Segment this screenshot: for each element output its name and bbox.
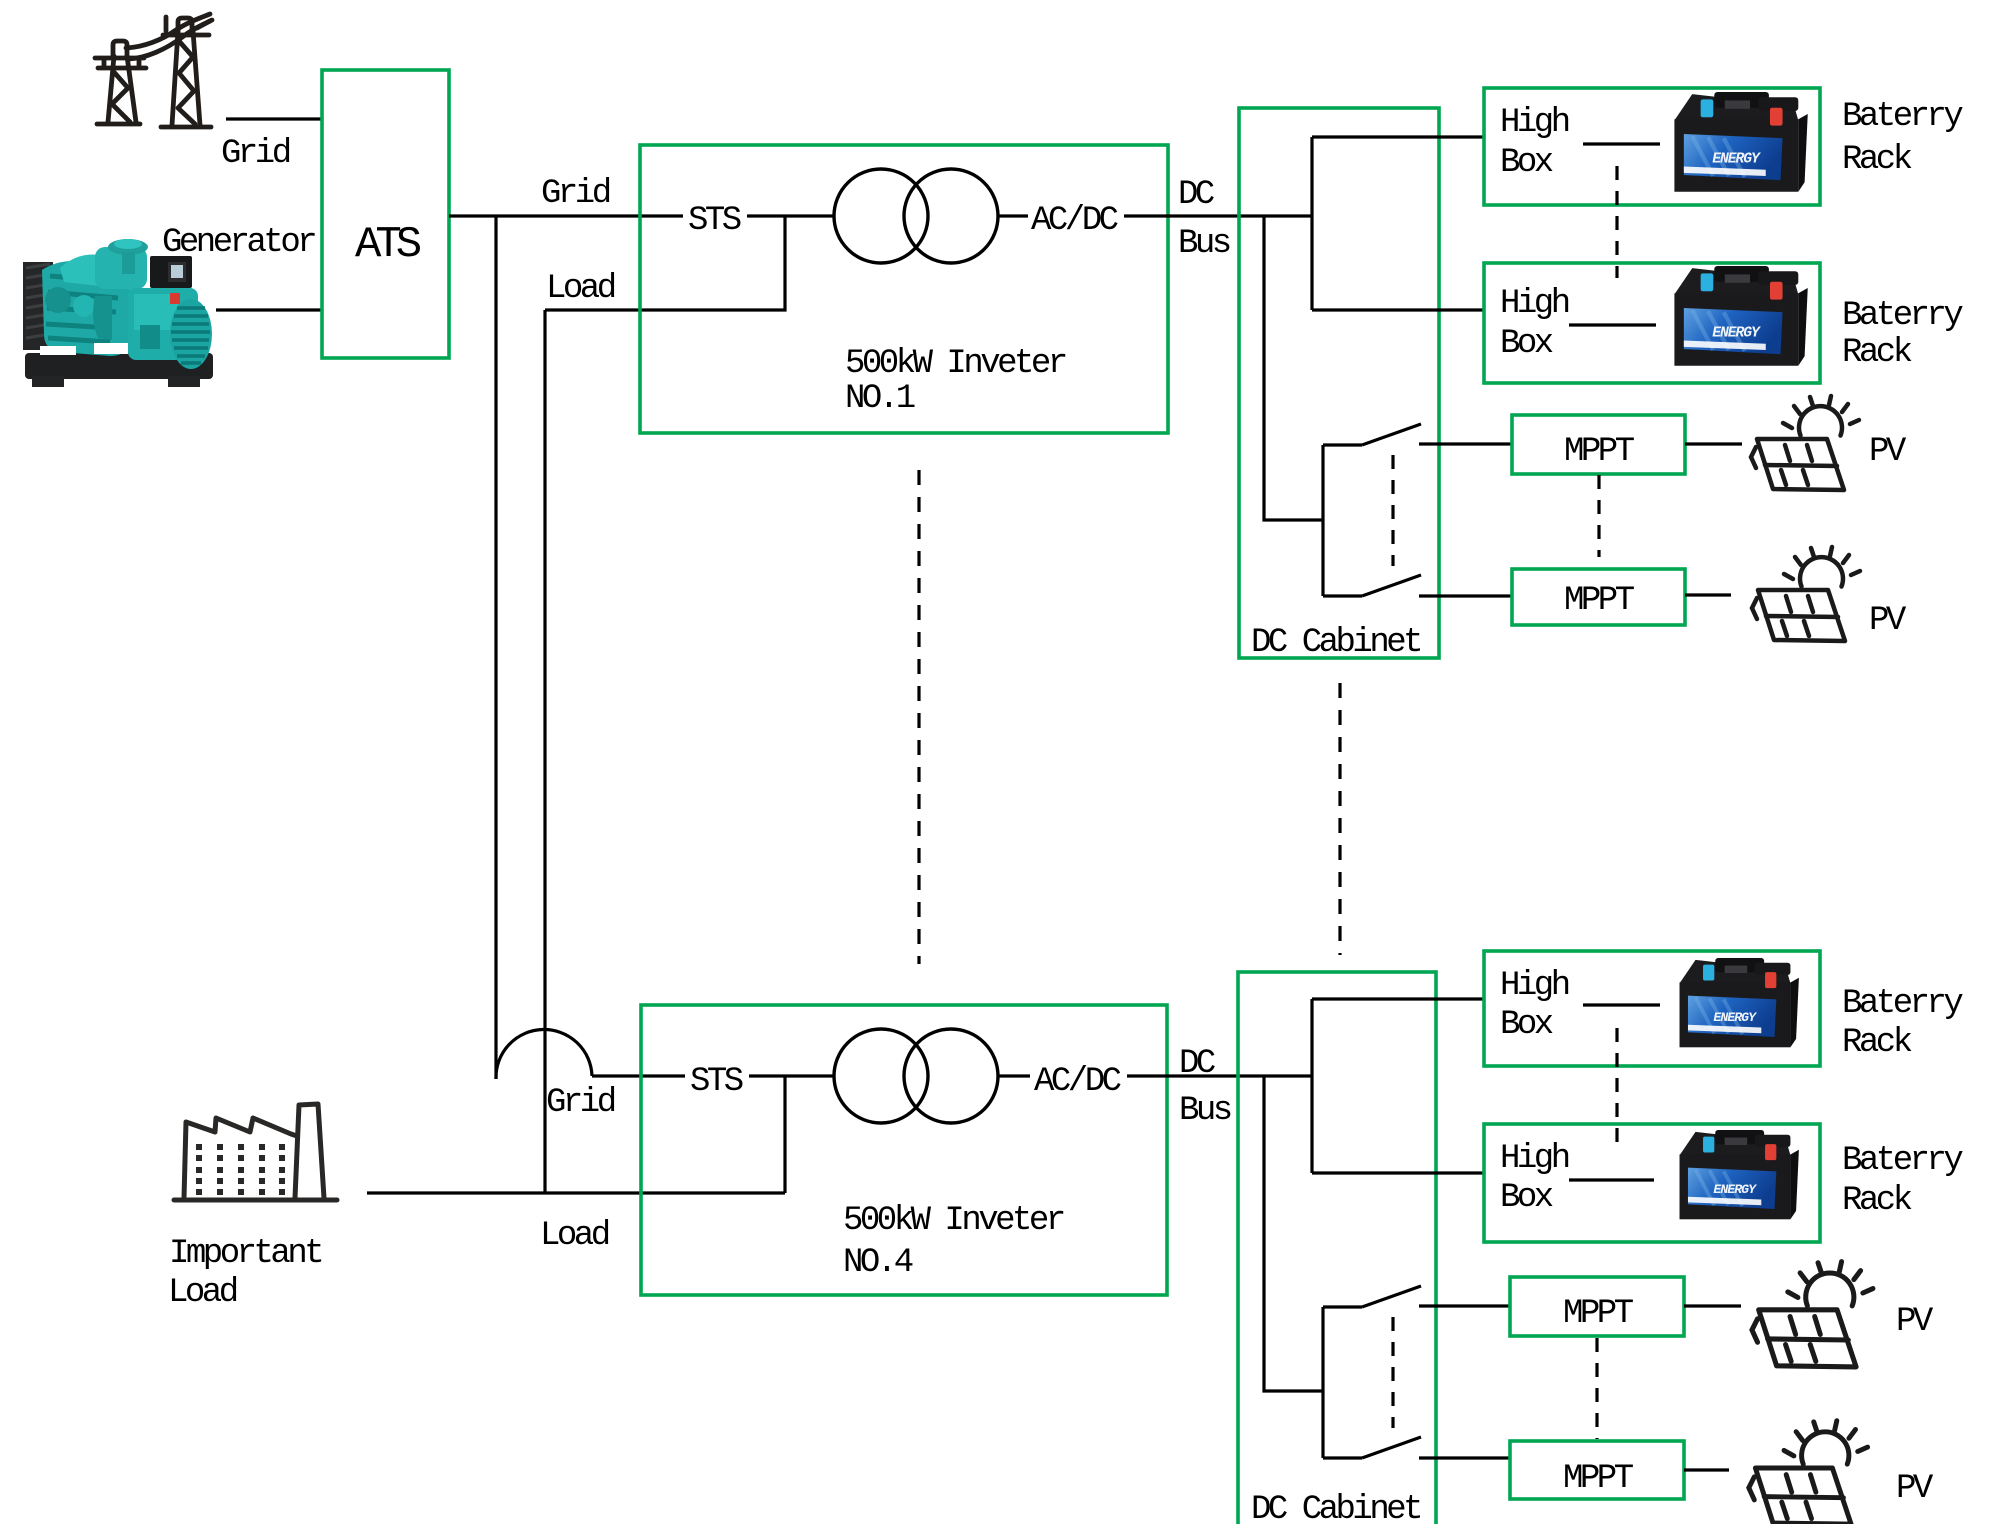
wire: tower to ATS	[226, 117, 322, 120]
svg-text:MPPT: MPPT	[1563, 1295, 1634, 1333]
svg-text:Load: Load	[546, 270, 615, 308]
MPPT 4 box	[1510, 1441, 1684, 1499]
svg-text:AC/DC: AC/DC	[1031, 202, 1118, 240]
svg-text:Grid: Grid	[541, 175, 610, 213]
svg-text:High: High	[1500, 1140, 1569, 1178]
battery rack 1 image	[1674, 92, 1807, 192]
dashed link between switches S2	[1391, 1317, 1394, 1428]
svg-text:PV: PV	[1896, 1303, 1934, 1341]
PV array icon 4	[1749, 1421, 1868, 1524]
svg-text:Rack: Rack	[1842, 141, 1912, 179]
inverter U4 box (500kW Inveter NO.4)	[641, 1005, 1167, 1295]
DC Cabinet 2 box	[1238, 972, 1436, 1524]
PV array icon 1	[1751, 396, 1859, 490]
wire: STS1 drop to load bus	[545, 216, 785, 310]
High Box 1	[1484, 88, 1820, 205]
svg-text:High: High	[1500, 104, 1569, 142]
svg-text:STS: STS	[690, 1063, 743, 1101]
battery rack 4 image	[1680, 1130, 1799, 1219]
svg-text:High: High	[1500, 967, 1569, 1005]
svg-text:500kW Inveter: 500kW Inveter	[843, 1202, 1064, 1240]
switch S1 (PV feeder 1)	[1323, 424, 1512, 596]
svg-text:MPPT: MPPT	[1563, 1460, 1634, 1498]
svg-text:ATS: ATS	[355, 220, 421, 270]
wire: to High Box 3	[1312, 997, 1484, 1000]
dashed link MPPT1 to MPPT2	[1597, 475, 1600, 557]
wire: STS1 to transformer T1	[747, 214, 834, 217]
svg-text:Generator: Generator	[162, 224, 315, 262]
svg-text:DC Cabinet: DC Cabinet	[1251, 624, 1420, 662]
svg-text:MPPT: MPPT	[1564, 433, 1635, 471]
dashed link between switches S1	[1391, 455, 1394, 566]
wire: generator to ATS	[216, 308, 322, 311]
battery rack 2 image	[1674, 266, 1807, 366]
svg-text:Rack: Rack	[1842, 334, 1912, 372]
svg-text:PV: PV	[1896, 1470, 1934, 1508]
wire: battery branch vertical (cabinet 1)	[1310, 137, 1313, 310]
wire hop arc over load line	[496, 1029, 592, 1079]
svg-text:High: High	[1500, 285, 1569, 323]
DC Cabinet 1 box	[1239, 108, 1439, 658]
svg-text:PV: PV	[1869, 602, 1907, 640]
svg-text:Baterry: Baterry	[1842, 1142, 1963, 1180]
wire: STS2 to transformer T2	[749, 1074, 834, 1077]
svg-text:Box: Box	[1500, 144, 1553, 182]
svg-text:Rack: Rack	[1842, 1182, 1912, 1220]
MPPT 2 box	[1512, 569, 1685, 625]
wire: AC/DC to DC bus 1	[1124, 214, 1312, 217]
PV array icon 3	[1752, 1262, 1873, 1367]
svg-text:Box: Box	[1500, 1179, 1553, 1217]
svg-text:MPPT: MPPT	[1564, 582, 1635, 620]
switch S2 (PV feeder 2)	[1323, 1286, 1510, 1458]
svg-text:Baterry: Baterry	[1842, 297, 1963, 335]
factory icon (Important Load)	[174, 1104, 337, 1200]
dashed link High Box 1 to High Box 2	[1615, 166, 1618, 278]
svg-text:DC: DC	[1179, 1045, 1215, 1083]
svg-text:Grid: Grid	[546, 1084, 615, 1122]
generator image (teal genset)	[23, 239, 213, 387]
wire: hop output to STS2 (Grid into inverter NO.4)	[592, 1074, 685, 1077]
PV array icon 2	[1752, 547, 1860, 641]
svg-text:Grid: Grid	[221, 135, 290, 173]
wire: T2 to AC/DC converter	[998, 1074, 1030, 1077]
wire: grid drop vertical to inverter NO.4	[494, 216, 497, 1079]
wire: MPPT4 to PV4	[1684, 1468, 1729, 1471]
svg-text:Box: Box	[1500, 325, 1553, 363]
wire: to High Box 2	[1312, 308, 1484, 311]
wire: battery branch vertical (cabinet 2)	[1310, 999, 1313, 1173]
wire: switch branch vertical (cabinet 1)	[1264, 216, 1323, 520]
wire: High Box 4 to battery rack 4	[1569, 1178, 1654, 1181]
transformer T1	[834, 169, 928, 263]
wire: High Box 1 to battery rack 1	[1583, 142, 1660, 145]
wire: MPPT3 to PV3	[1684, 1304, 1741, 1307]
wire: AC/DC to DC bus 2	[1127, 1074, 1312, 1077]
svg-text:NO.4: NO.4	[843, 1244, 913, 1282]
svg-text:PV: PV	[1869, 433, 1907, 471]
svg-text:Load: Load	[168, 1274, 237, 1312]
wire: High Box 2 to battery rack 2	[1569, 323, 1656, 326]
svg-text:DC: DC	[1178, 176, 1214, 214]
wire: T1 to AC/DC converter	[998, 214, 1028, 217]
High Box 2	[1484, 263, 1820, 383]
wire: switch branch vertical (cabinet 2)	[1264, 1076, 1323, 1391]
wire: High Box 3 to battery rack 3	[1583, 1003, 1660, 1006]
ATS box	[322, 70, 449, 358]
svg-text:DC Cabinet: DC Cabinet	[1251, 1491, 1420, 1524]
wire: MPPT1 to PV1	[1685, 442, 1742, 445]
battery rack 3 image	[1680, 958, 1799, 1047]
MPPT 3 box	[1510, 1277, 1684, 1336]
High Box 3	[1484, 951, 1820, 1066]
svg-text:Bus: Bus	[1178, 225, 1230, 263]
svg-text:Rack: Rack	[1842, 1024, 1912, 1062]
dashed link High Box 3 to High Box 4	[1615, 1028, 1618, 1147]
wire: ATS output to STS1 (Grid)	[449, 214, 683, 217]
svg-text:Load: Load	[540, 1217, 609, 1255]
svg-text:NO.1: NO.1	[845, 380, 915, 418]
svg-text:AC/DC: AC/DC	[1034, 1063, 1121, 1101]
wire: STS2 drop to load bus	[783, 1076, 786, 1193]
svg-text:Bus: Bus	[1179, 1092, 1231, 1130]
svg-text:Baterry: Baterry	[1842, 98, 1963, 136]
wire: load bus horizontal to important load	[367, 1191, 785, 1194]
wire: to High Box 4	[1312, 1171, 1484, 1174]
wire: load bus vertical	[543, 310, 546, 1193]
MPPT 1 box	[1512, 415, 1685, 474]
High Box 4	[1484, 1124, 1820, 1242]
dashed link DC cabinet 1 to DC cabinet 2	[1338, 683, 1341, 955]
svg-text:500kW Inveter: 500kW Inveter	[845, 345, 1066, 383]
dashed ellipsis between inverters	[917, 470, 920, 964]
inverter U1 box (500kW Inveter NO.1)	[640, 145, 1168, 433]
wire: MPPT2 to PV2	[1685, 593, 1731, 596]
dashed link MPPT3 to MPPT4	[1595, 1338, 1598, 1439]
svg-text:Baterry: Baterry	[1842, 985, 1963, 1023]
wire: to High Box 1	[1312, 135, 1484, 138]
transformer T2	[834, 1029, 928, 1123]
svg-text:Box: Box	[1500, 1006, 1553, 1044]
transmission tower icon (Grid source)	[95, 14, 212, 127]
svg-text:STS: STS	[688, 202, 741, 240]
svg-text:Important: Important	[169, 1235, 321, 1273]
